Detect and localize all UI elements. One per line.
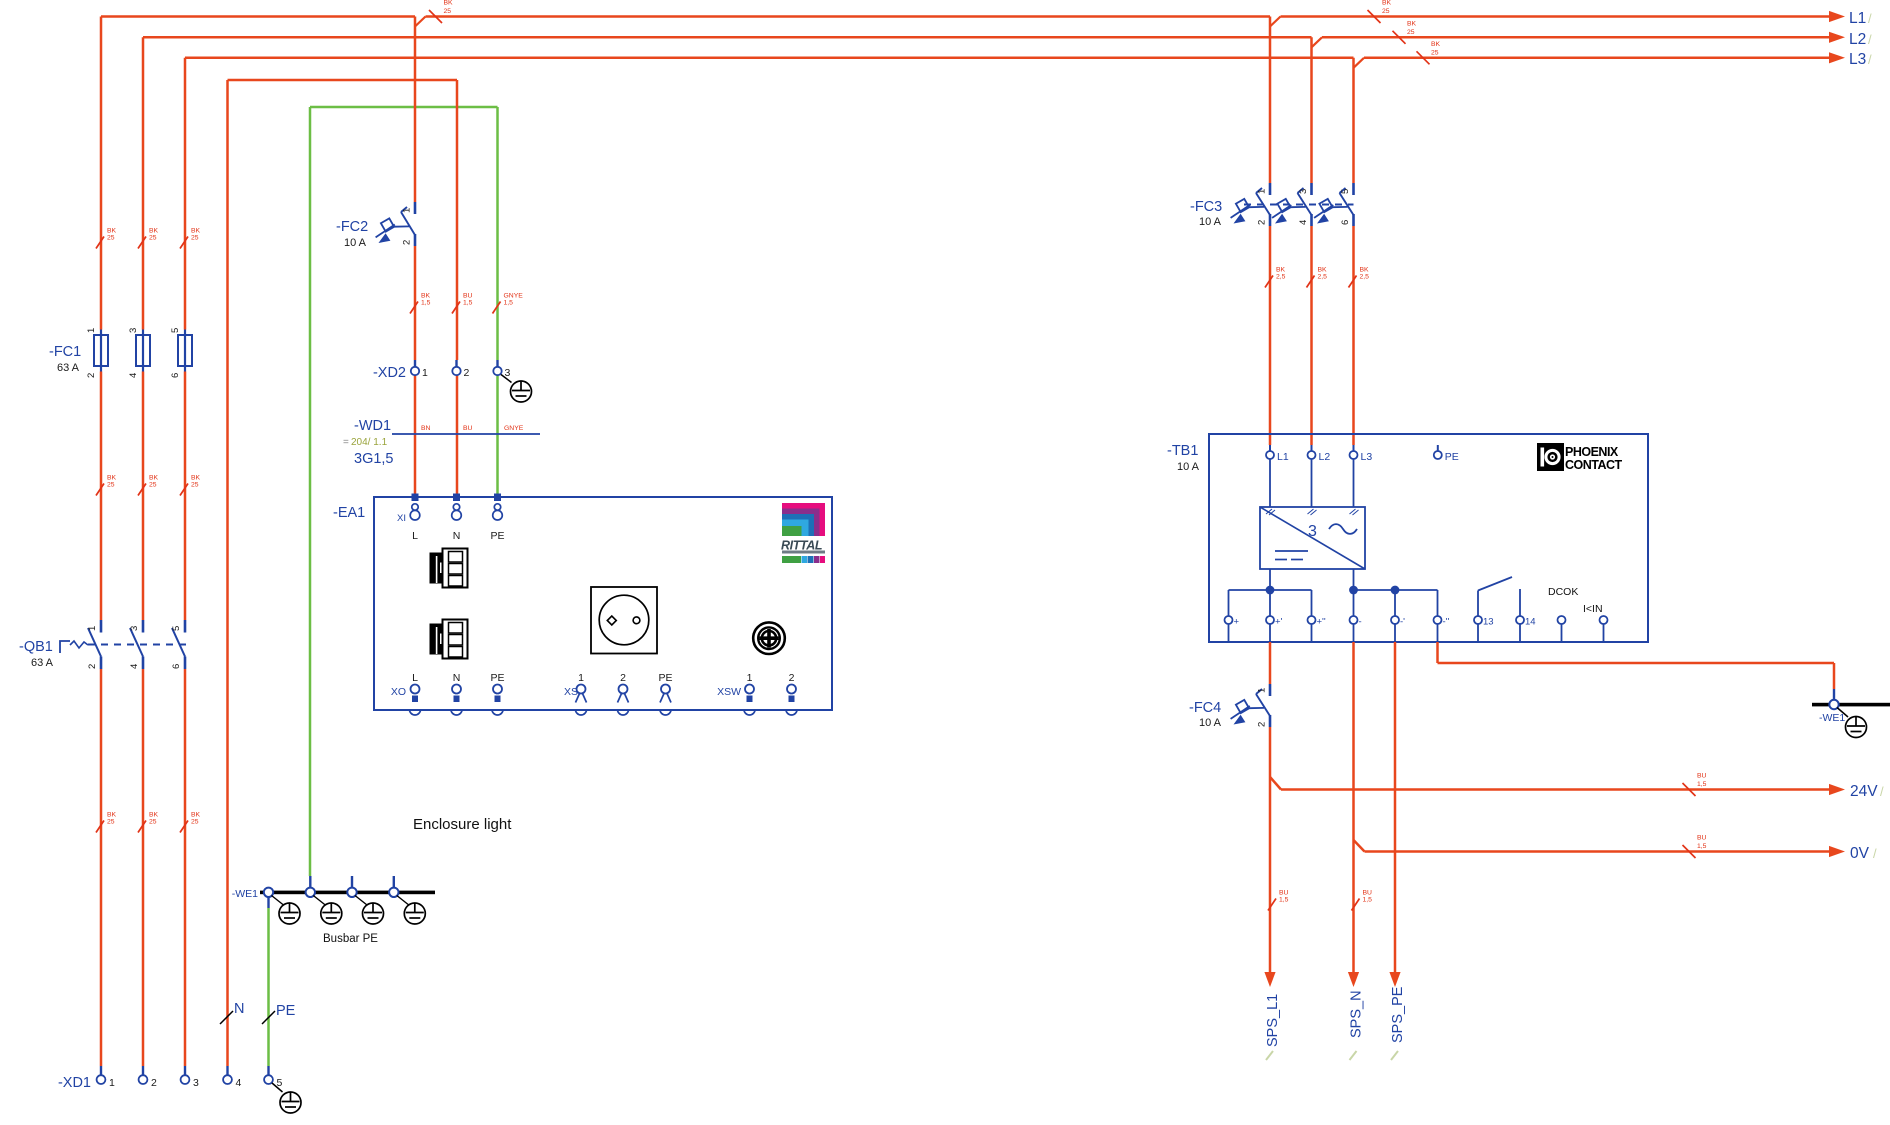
svg-text:25: 25: [1431, 49, 1439, 56]
svg-text:6: 6: [171, 664, 182, 669]
svg-text:0V: 0V: [1850, 845, 1870, 862]
svg-text:1,5: 1,5: [1279, 897, 1289, 904]
svg-text:63 A: 63 A: [31, 657, 54, 669]
svg-text:4: 4: [128, 373, 139, 378]
svg-text:BK: BK: [107, 228, 117, 235]
svg-text:5: 5: [171, 626, 182, 631]
svg-text:-EA1: -EA1: [333, 505, 365, 521]
svg-text:BK: BK: [191, 812, 201, 819]
svg-text:BU: BU: [1363, 890, 1373, 897]
svg-text:BK: BK: [1360, 267, 1370, 274]
svg-text:3: 3: [1298, 189, 1309, 194]
svg-text:3: 3: [128, 328, 139, 333]
svg-text:L3: L3: [1849, 51, 1866, 68]
svg-text:BK: BK: [149, 475, 159, 482]
svg-text:BK: BK: [149, 228, 159, 235]
svg-text:1,5: 1,5: [421, 300, 431, 307]
svg-text:BU: BU: [1697, 835, 1707, 842]
svg-text:BU: BU: [463, 293, 473, 300]
svg-text:DCOK: DCOK: [1548, 586, 1578, 598]
svg-text:25: 25: [191, 482, 199, 489]
svg-text:BK: BK: [1407, 20, 1417, 27]
svg-text:CONTACT: CONTACT: [1565, 458, 1623, 472]
svg-text:2: 2: [151, 1077, 157, 1089]
svg-text:BK: BK: [107, 812, 117, 819]
svg-text:BK: BK: [1382, 0, 1392, 7]
svg-text:PE: PE: [490, 530, 504, 542]
svg-text:2: 2: [1257, 220, 1268, 225]
svg-text:L: L: [412, 530, 418, 542]
svg-text:1: 1: [87, 626, 98, 631]
svg-text:-FC1: -FC1: [49, 344, 81, 360]
svg-text:BK: BK: [1318, 267, 1328, 274]
svg-text:2: 2: [789, 672, 795, 684]
svg-text:1: 1: [422, 367, 428, 379]
svg-text:/: /: [1868, 52, 1872, 67]
svg-text:63 A: 63 A: [57, 362, 80, 374]
svg-text:BK: BK: [149, 812, 159, 819]
svg-text:SPS_N: SPS_N: [1349, 990, 1365, 1038]
svg-text:GNYE: GNYE: [504, 293, 524, 300]
svg-text:-: -: [1359, 617, 1362, 628]
svg-text:BK: BK: [1431, 41, 1441, 48]
svg-text:24V: 24V: [1850, 783, 1878, 800]
svg-text:Busbar PE: Busbar PE: [323, 933, 378, 945]
svg-text:-': -': [1400, 617, 1405, 628]
svg-text:PE: PE: [276, 1003, 296, 1019]
svg-text:1: 1: [1257, 189, 1268, 194]
svg-text:PE: PE: [658, 672, 672, 684]
svg-text:2: 2: [1257, 722, 1268, 727]
svg-text:3G1,5: 3G1,5: [354, 451, 394, 467]
svg-text:10 A: 10 A: [344, 237, 367, 249]
svg-text:+': +': [1275, 617, 1283, 628]
svg-text:L3: L3: [1361, 451, 1373, 463]
svg-text:6: 6: [1340, 220, 1351, 225]
svg-text:XO: XO: [391, 686, 406, 698]
svg-text:BU: BU: [1279, 890, 1289, 897]
svg-text:25: 25: [107, 482, 115, 489]
svg-text:BU: BU: [463, 425, 473, 432]
svg-text:25: 25: [107, 235, 115, 242]
svg-text:6: 6: [170, 373, 181, 378]
svg-text:-XD1: -XD1: [58, 1075, 91, 1091]
svg-text:BN: BN: [421, 425, 431, 432]
svg-text:4: 4: [1298, 220, 1309, 225]
svg-text:25: 25: [191, 819, 199, 826]
svg-text:25: 25: [444, 8, 452, 15]
svg-text:5: 5: [170, 328, 181, 333]
svg-text:-XD2: -XD2: [373, 365, 406, 381]
svg-text:BK: BK: [421, 293, 431, 300]
svg-text:2: 2: [402, 240, 413, 245]
svg-text:N: N: [453, 530, 461, 542]
svg-text:1,5: 1,5: [1697, 843, 1707, 850]
svg-text:BK: BK: [444, 0, 454, 7]
svg-text:BK: BK: [1276, 267, 1286, 274]
svg-text:1,5: 1,5: [1363, 897, 1373, 904]
svg-text:2,5: 2,5: [1360, 274, 1370, 281]
svg-text:PHOENIX: PHOENIX: [1565, 445, 1619, 459]
svg-text:/: /: [1880, 784, 1884, 799]
svg-text:1,5: 1,5: [463, 300, 473, 307]
svg-text:2,5: 2,5: [1318, 274, 1328, 281]
svg-text:N: N: [234, 1001, 244, 1017]
svg-text:I<IN: I<IN: [1583, 603, 1603, 615]
svg-text:-TB1: -TB1: [1167, 443, 1198, 459]
svg-text:L2: L2: [1319, 451, 1331, 463]
svg-text:L1: L1: [1849, 10, 1866, 27]
svg-text:N: N: [453, 672, 461, 684]
svg-text:-WD1: -WD1: [354, 418, 391, 434]
svg-text:25: 25: [149, 482, 157, 489]
svg-text:4: 4: [129, 664, 140, 669]
svg-text:2: 2: [620, 672, 626, 684]
svg-text:SPS_L1: SPS_L1: [1265, 994, 1281, 1047]
svg-text:10 A: 10 A: [1199, 717, 1222, 729]
svg-text:-WE1: -WE1: [1819, 712, 1845, 724]
svg-text:1,5: 1,5: [1697, 781, 1707, 788]
svg-text:/: /: [1868, 11, 1872, 26]
svg-text:204/ 1.1: 204/ 1.1: [351, 437, 388, 448]
svg-text:3: 3: [193, 1077, 199, 1089]
svg-text:RITTAL: RITTAL: [781, 539, 822, 553]
svg-text:PE: PE: [490, 672, 504, 684]
svg-text:-'': -'': [1443, 617, 1450, 628]
svg-text:2: 2: [87, 664, 98, 669]
svg-text:25: 25: [149, 819, 157, 826]
svg-text:L2: L2: [1849, 31, 1866, 48]
svg-text:5: 5: [1340, 189, 1351, 194]
svg-text:2: 2: [464, 367, 470, 379]
svg-text:2: 2: [86, 373, 97, 378]
svg-text:10 A: 10 A: [1177, 461, 1200, 473]
svg-text:L: L: [412, 672, 418, 684]
svg-text:SPS_PE: SPS_PE: [1390, 986, 1406, 1043]
svg-text:BU: BU: [1697, 773, 1707, 780]
svg-text:=: =: [343, 437, 349, 448]
svg-text:1: 1: [747, 672, 753, 684]
svg-text:25: 25: [1407, 29, 1415, 36]
svg-text:BK: BK: [191, 228, 201, 235]
svg-text:13: 13: [1483, 617, 1494, 628]
svg-text:14: 14: [1525, 617, 1536, 628]
svg-text:3: 3: [1308, 523, 1317, 540]
svg-text:BK: BK: [107, 475, 117, 482]
svg-text:1: 1: [402, 208, 413, 213]
svg-text:-FC2: -FC2: [336, 219, 368, 235]
svg-text:1,5: 1,5: [504, 300, 514, 307]
svg-text:25: 25: [191, 235, 199, 242]
svg-text:1: 1: [109, 1077, 115, 1089]
svg-text:-FC4: -FC4: [1189, 700, 1221, 716]
svg-text:3: 3: [129, 626, 140, 631]
svg-text:-WE1: -WE1: [232, 888, 258, 900]
svg-text:-QB1: -QB1: [19, 639, 53, 655]
svg-text:L1: L1: [1277, 451, 1289, 463]
svg-text:XI: XI: [397, 513, 406, 524]
svg-text:BK: BK: [191, 475, 201, 482]
svg-text:1: 1: [578, 672, 584, 684]
svg-text:Enclosure light: Enclosure light: [413, 816, 512, 833]
svg-text:XS: XS: [564, 686, 578, 698]
svg-text:/: /: [1873, 846, 1877, 861]
svg-text:-FC3: -FC3: [1190, 199, 1222, 215]
svg-text:25: 25: [1382, 8, 1390, 15]
svg-text:2,5: 2,5: [1276, 274, 1286, 281]
svg-text:10 A: 10 A: [1199, 216, 1222, 228]
svg-text:PE: PE: [1445, 451, 1459, 463]
svg-text:1: 1: [86, 328, 97, 333]
svg-text:1: 1: [1257, 688, 1268, 693]
svg-text:25: 25: [149, 235, 157, 242]
svg-text:/: /: [1868, 32, 1872, 47]
svg-text:XSW: XSW: [717, 686, 741, 698]
svg-text:GNYE: GNYE: [504, 425, 524, 432]
svg-text:+'': +'': [1317, 617, 1326, 628]
svg-text:+: +: [1234, 617, 1240, 628]
svg-text:4: 4: [236, 1077, 242, 1089]
svg-text:25: 25: [107, 819, 115, 826]
